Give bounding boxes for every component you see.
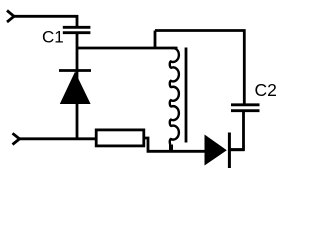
svg-text:C2: C2	[255, 80, 277, 100]
svg-text:C1: C1	[42, 28, 64, 47]
